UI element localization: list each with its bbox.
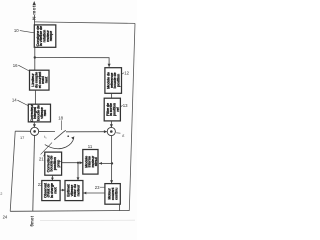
wire circle A to switch [39,130,55,132]
junction node [34,56,36,58]
svg-text:14: 14 [12,98,17,103]
wire box14 to circle A [33,122,35,127]
svg-text:continu: continu [114,187,118,200]
wire top horizontal [35,22,136,24]
wire box12 to box13 [111,93,113,98]
leader 18 [60,120,62,130]
svg-text:ε: ε [122,133,124,138]
wire circle A down [33,136,35,212]
box motor [105,184,120,205]
leader 13 [121,105,123,106]
arrow into box 12 [108,64,111,68]
switch blade [54,130,66,139]
switch motion arc [45,138,74,149]
svg-text:22: 22 [38,182,43,187]
wire B1 B2 [60,189,65,191]
wire R1 right to main vertical [99,162,112,164]
wire circle B down to motor [111,136,113,184]
box 19 (cluster L1) [45,152,62,175]
svg-text:13: 13 [123,103,128,108]
svg-text:23: 23 [95,185,100,190]
svg-text:2: 2 [0,192,2,196]
svg-text:17: 17 [20,135,24,140]
faint shadow line [40,219,135,221]
arrowhead top [33,1,36,5]
svg-text:mot: mot [44,76,48,83]
box B2 [65,181,83,201]
wire stub above box 10 [34,15,36,25]
wire box16 to box14 [34,90,36,104]
leader 22 [40,180,43,182]
svg-text:prop: prop [56,159,60,167]
svg-text:simul: simul [94,157,98,166]
box 16 [30,70,50,90]
arrow into circle B [110,124,113,127]
junction on L1-R1 wire [77,162,79,164]
svg-text:12: 12 [124,71,129,76]
svg-text:moteur: moteur [77,184,81,196]
summing circle A [30,127,38,135]
box 14 [28,104,50,122]
leader diagonal crossing arc [41,143,52,155]
svg-text:21: 21 [39,157,44,162]
svg-text:11: 11 [88,144,93,149]
svg-text:rampe: rampe [49,31,53,41]
svg-text:24: 24 [3,214,8,219]
wire bottom horizontal [10,210,129,213]
arrow into circle A [33,124,36,127]
switch contact t2 dot [67,135,69,137]
leader 14 [17,100,28,105]
leader 23 [100,186,105,188]
wire motor to B2 [83,192,105,194]
arrow into circle B left [104,130,107,133]
box 10 (top block) [34,25,56,47]
wire box13 to circle B [110,121,112,127]
wire L1 to R1 [62,162,83,164]
svg-text:θmot: θmot [30,215,35,226]
leader 12 [122,73,124,74]
wire motor down [119,204,121,211]
box 22 (cluster B1) [42,181,60,201]
wire L1 down to B1 [51,175,53,180]
svg-text:10: 10 [14,28,19,33]
svg-text:mot: mot [43,109,47,116]
wire box10 to box16 [34,47,36,70]
wire branch right [35,58,109,67]
wire into left summing circle [15,130,30,132]
svg-text:18: 18 [58,116,63,121]
wire right vertical [129,23,135,210]
wire switch to circle B [66,131,107,133]
leader 10 [20,31,34,33]
leader 21 [44,153,45,156]
junction on main vertical [111,162,113,164]
leader 16 [18,65,29,71]
box 13 (right second) [104,98,120,121]
svg-text:position: position [117,73,121,87]
svg-text:16: 16 [13,63,18,68]
box 12 (right top) [105,68,122,94]
epsilon label [116,132,120,134]
summing circle B [107,127,115,135]
wire junction down to B2 [77,163,79,181]
wire left vertical feedback [10,131,15,211]
svg-text:mot: mot [53,187,57,194]
box 20 (cluster R1) [83,150,98,175]
